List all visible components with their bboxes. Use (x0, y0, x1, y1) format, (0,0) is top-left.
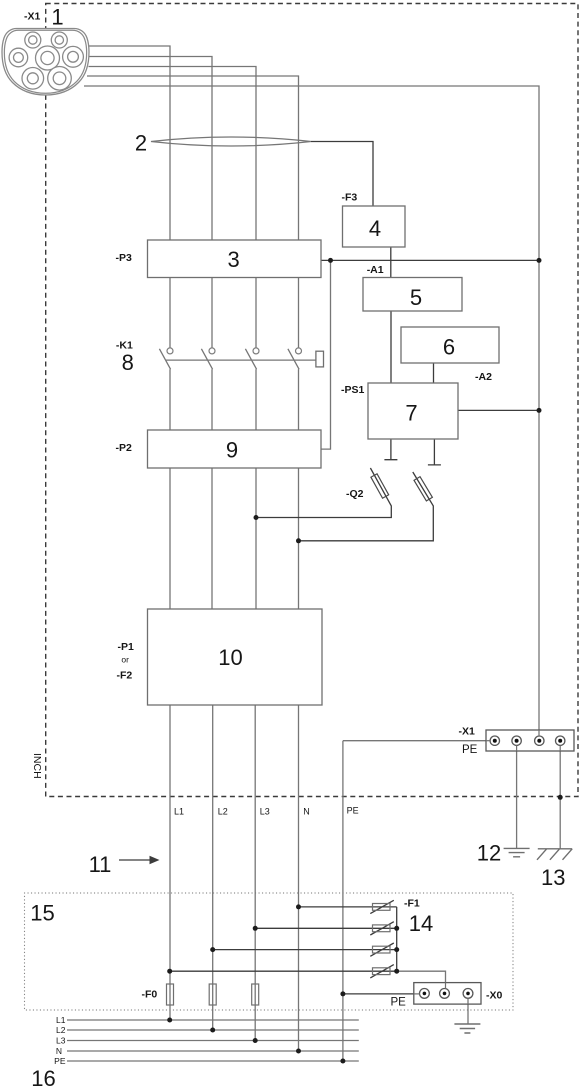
svg-text:4: 4 (369, 216, 381, 241)
svg-text:L1: L1 (56, 1015, 66, 1025)
svg-text:L2: L2 (56, 1025, 66, 1035)
svg-text:11: 11 (89, 852, 112, 877)
svg-text:6: 6 (443, 335, 455, 360)
svg-text:L1: L1 (174, 807, 184, 817)
svg-text:-X1: -X1 (459, 726, 476, 738)
svg-text:-A2: -A2 (475, 371, 492, 383)
svg-text:N: N (303, 807, 310, 817)
svg-text:12: 12 (477, 841, 501, 866)
svg-text:-F0: -F0 (142, 989, 158, 1001)
svg-text:PE: PE (391, 997, 407, 1009)
svg-text:13: 13 (541, 865, 565, 890)
svg-text:10: 10 (218, 645, 242, 670)
svg-text:-X1: -X1 (24, 11, 41, 23)
svg-text:-P1: -P1 (118, 641, 135, 653)
svg-text:-F1: -F1 (404, 897, 420, 909)
svg-text:L2: L2 (218, 807, 228, 817)
svg-text:L3: L3 (260, 807, 270, 817)
svg-text:16: 16 (31, 1066, 55, 1088)
svg-text:1: 1 (51, 5, 63, 30)
svg-text:3: 3 (227, 247, 239, 272)
svg-text:INCH: INCH (31, 753, 43, 779)
svg-text:15: 15 (30, 901, 54, 926)
svg-text:-PS1: -PS1 (341, 384, 365, 396)
svg-text:-F3: -F3 (342, 192, 358, 204)
svg-text:or: or (121, 654, 129, 664)
svg-text:14: 14 (409, 911, 433, 936)
svg-text:-K1: -K1 (116, 340, 133, 352)
svg-text:-P2: -P2 (116, 442, 133, 454)
svg-text:5: 5 (410, 285, 422, 310)
svg-text:-P3: -P3 (116, 252, 133, 264)
svg-text:L3: L3 (56, 1036, 66, 1046)
svg-text:9: 9 (226, 438, 238, 463)
svg-text:8: 8 (122, 350, 134, 375)
svg-text:-X0: -X0 (486, 990, 503, 1002)
svg-text:PE: PE (462, 744, 478, 756)
svg-text:N: N (56, 1046, 62, 1056)
svg-text:-A1: -A1 (367, 264, 384, 276)
svg-text:PE: PE (54, 1056, 66, 1066)
svg-text:PE: PE (347, 806, 359, 816)
svg-text:2: 2 (135, 131, 147, 156)
svg-text:-Q2: -Q2 (346, 488, 364, 500)
svg-text:-F2: -F2 (117, 670, 133, 682)
svg-text:7: 7 (405, 401, 417, 426)
